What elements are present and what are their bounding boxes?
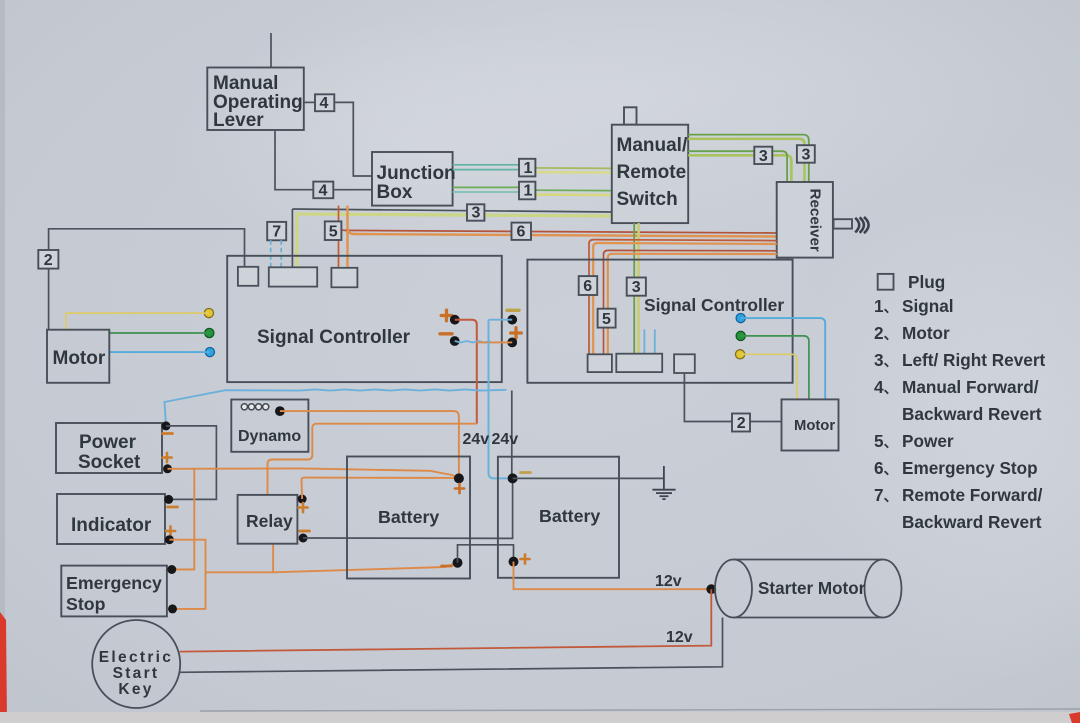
svg-text:Dynamo: Dynamo xyxy=(238,428,301,445)
orange wire dynamo to battery1 plus xyxy=(280,411,459,478)
plug 2a xyxy=(38,250,58,269)
wire plug 4b to junction box xyxy=(333,189,372,191)
starter motor junction dot xyxy=(706,584,716,594)
yellow wire to left motor xyxy=(66,313,209,330)
SC1 plus terminal left xyxy=(441,310,477,424)
electric start key circle xyxy=(92,620,180,708)
svg-text:Power: Power xyxy=(79,432,137,453)
svg-text:4: 4 xyxy=(320,95,329,112)
svg-text:2: 2 xyxy=(737,415,746,432)
svg-text:2: 2 xyxy=(44,252,53,269)
orange wire socket plus to battery1 plus xyxy=(168,468,459,478)
svg-text:Battery: Battery xyxy=(378,507,439,527)
estop bottom dot xyxy=(168,604,177,613)
SC1 minus terminal left xyxy=(440,334,491,346)
green wire to right motor xyxy=(741,336,809,400)
svg-text:5: 5 xyxy=(329,223,338,240)
battery 2 box xyxy=(498,457,619,578)
plug 3d xyxy=(627,278,646,297)
svg-text:3: 3 xyxy=(759,148,768,165)
manual/remote switch box xyxy=(612,125,688,223)
svg-text:Indicator: Indicator xyxy=(71,515,152,536)
svg-text:Backward Revert: Backward Revert xyxy=(902,512,1042,532)
junction box xyxy=(372,152,456,206)
receiver box xyxy=(777,182,833,258)
svg-text:Stop: Stop xyxy=(66,594,106,614)
wire plug 4a to junction box xyxy=(334,102,372,176)
SC1 right minus terminal xyxy=(489,310,520,324)
svg-text:Starter Motor: Starter Motor xyxy=(758,579,866,598)
svg-text:Electric: Electric xyxy=(99,649,173,666)
legend plug square xyxy=(878,274,894,290)
plug 3c on upper-right vertical xyxy=(797,145,815,163)
dark loop socket minus to indicator minus xyxy=(166,426,216,500)
svg-text:Junction: Junction xyxy=(377,163,456,184)
svg-text:Receiver: Receiver xyxy=(807,189,824,252)
SC1 green dot xyxy=(205,328,214,337)
svg-text:Socket: Socket xyxy=(78,452,141,473)
left motor box xyxy=(47,330,109,383)
orange branch to battery1 minus xyxy=(206,563,458,573)
battery1 plus dot xyxy=(454,473,464,483)
svg-text:6: 6 xyxy=(517,224,526,241)
antenna stub xyxy=(834,219,853,228)
switch bottom pair green/yellow down to plug 3d xyxy=(634,223,638,354)
svg-text:3: 3 xyxy=(632,279,641,296)
svg-text:1: 1 xyxy=(524,160,533,177)
svg-text:4: 4 xyxy=(319,182,328,199)
blue dashed pair below plug 7 xyxy=(271,240,282,268)
plug 5b xyxy=(598,309,616,328)
indicator box xyxy=(57,494,165,544)
svg-text:Motor: Motor xyxy=(53,348,106,369)
dynamo vent circles xyxy=(241,404,269,410)
orange pair to plug 6a and receiver xyxy=(339,224,777,237)
battery 1 box xyxy=(347,457,470,579)
wire plug 2a to left motor xyxy=(48,269,50,330)
starter motor cylinder xyxy=(715,560,902,618)
svg-text:3: 3 xyxy=(472,205,481,222)
battery1 minus sign xyxy=(442,565,452,568)
relay plus sign xyxy=(298,503,307,512)
relay plus dot xyxy=(298,495,307,504)
power socket box xyxy=(56,423,162,473)
plug 5a xyxy=(325,221,342,240)
svg-text:Plug: Plug xyxy=(908,272,945,292)
indicator plus sign xyxy=(166,526,175,535)
svg-text:Start: Start xyxy=(113,665,160,682)
wire from lever top xyxy=(270,33,272,68)
dynamo terminal dot xyxy=(275,406,285,416)
orange wire relay plus to battery1 plus xyxy=(302,478,459,499)
wire lever to plug 4a xyxy=(304,101,315,103)
blue wire to right motor xyxy=(741,318,826,399)
svg-text:Motor: Motor xyxy=(794,418,835,434)
orange verticals junction box to controller connector xyxy=(339,206,348,268)
SC2 connector box D xyxy=(588,354,612,372)
svg-text:6: 6 xyxy=(583,278,592,295)
indicator minus sign xyxy=(168,506,178,509)
dynamo box xyxy=(231,400,308,452)
svg-text:2、Motor: 2、Motor xyxy=(874,323,950,343)
svg-text:Emergency: Emergency xyxy=(66,573,162,593)
relay minus sign xyxy=(300,530,310,533)
bundle 3: turn-down into controller xyxy=(292,209,297,268)
SC2 yellow dot xyxy=(736,350,745,359)
svg-text:3: 3 xyxy=(802,146,811,163)
svg-text:Relay: Relay xyxy=(246,511,293,531)
antenna waves xyxy=(855,217,868,233)
dark vertical to battery2 minus xyxy=(511,391,513,479)
power socket minus dot xyxy=(162,421,171,430)
battery2 minus sign xyxy=(521,471,531,474)
svg-text:Backward Revert: Backward Revert xyxy=(902,404,1042,424)
battery2 plus dot xyxy=(509,557,519,567)
relay box xyxy=(238,495,298,544)
bundle 3: yellow-green band horizontal xyxy=(296,214,612,216)
plug 6a xyxy=(512,223,532,241)
battery1 minus dot xyxy=(453,558,463,568)
battery2 minus dot xyxy=(508,473,518,483)
estop top dot xyxy=(167,565,176,574)
wire plug 2b to right motor xyxy=(750,421,782,423)
svg-text:Manual/: Manual/ xyxy=(617,135,688,156)
plug 7 xyxy=(267,222,286,241)
plug 3b xyxy=(754,147,772,165)
plug 1a xyxy=(519,159,535,177)
power socket plus sign xyxy=(162,453,171,462)
svg-text:Signal Controller: Signal Controller xyxy=(644,295,784,315)
SC2 blue dot xyxy=(736,314,745,323)
dark wire battery1 minus to battery2 plus xyxy=(458,545,514,563)
svg-text:Switch: Switch xyxy=(617,189,678,210)
green wire to left motor xyxy=(109,332,209,334)
dark wire battery2 minus to ground xyxy=(513,477,664,479)
svg-text:1: 1 xyxy=(524,183,533,200)
blue stubs into connector E xyxy=(644,329,654,353)
blue wire to left motor xyxy=(109,351,210,353)
wire connector F down to plug 2b and right motor xyxy=(684,373,732,422)
svg-text:12v: 12v xyxy=(666,629,693,646)
plug 1b xyxy=(519,182,535,200)
power socket minus sign xyxy=(163,432,173,435)
manual operating lever box xyxy=(207,68,303,132)
power socket plus dot xyxy=(163,464,172,473)
green pair switch to receiver (upper) xyxy=(688,135,809,182)
right motor box xyxy=(782,399,839,450)
svg-text:1、Signal: 1、Signal xyxy=(874,296,954,316)
indicator minus dot xyxy=(164,495,173,504)
svg-text:5、Power: 5、Power xyxy=(874,431,954,451)
plug 4b xyxy=(313,182,333,200)
red wire starter dot down to electric key xyxy=(180,589,712,651)
orange wire indicator plus to estop bottom xyxy=(169,540,205,609)
signal controller 2 box xyxy=(527,260,792,383)
svg-text:Box: Box xyxy=(377,182,413,203)
svg-text:Battery: Battery xyxy=(539,506,600,526)
SC1 connector box A xyxy=(238,267,258,286)
svg-text:24v: 24v xyxy=(463,431,490,448)
SC2 green dot xyxy=(736,331,745,340)
dark wire electric key to starter motor bottom xyxy=(179,618,722,673)
svg-text:Manual: Manual xyxy=(213,73,278,94)
battery1 plus sign xyxy=(455,484,464,493)
svg-text:Signal Controller: Signal Controller xyxy=(257,327,411,348)
SC1 connector box B xyxy=(269,267,317,286)
orange wire estop top to socket plus line xyxy=(172,469,195,570)
svg-text:Key: Key xyxy=(118,681,153,698)
svg-text:Remote: Remote xyxy=(617,162,687,183)
svg-text:7: 7 xyxy=(272,224,281,241)
SC2 connector box F xyxy=(674,354,695,373)
relay minus dot xyxy=(299,534,308,543)
plug 6b xyxy=(579,276,598,295)
indicator plus dot xyxy=(165,535,174,544)
signal controller 1 box xyxy=(227,256,502,382)
blue wavy wire power socket to battery2 minus xyxy=(165,389,507,426)
green pair switch through plug 3b down to receiver xyxy=(688,151,791,182)
receiver-left orange bundle pair C xyxy=(604,250,777,354)
orange wire relay bottom to branch xyxy=(272,544,274,573)
dark wire relay minus to battery2 minus xyxy=(303,478,512,538)
plug 4a xyxy=(315,94,334,112)
svg-text:5: 5 xyxy=(602,311,611,328)
battery2 plus sign xyxy=(520,554,529,563)
ground symbol xyxy=(652,466,675,499)
wire pair junction to plug 1b and switch xyxy=(453,187,612,195)
plug 2b xyxy=(732,414,750,433)
SC1 blue dot xyxy=(205,348,214,357)
receiver-left orange bundle pair B xyxy=(589,240,777,355)
wire long: motor2 plug line to controller xyxy=(49,229,245,267)
yellow wire to right motor xyxy=(740,354,797,399)
svg-text:Lever: Lever xyxy=(213,110,264,131)
svg-text:24v: 24v xyxy=(492,431,519,448)
bundle 3: dark line horizontal xyxy=(292,209,611,212)
orange wire relay top to SC1 xyxy=(268,424,477,495)
wire pair junction to plug 1a and switch xyxy=(453,165,612,173)
emergency stop box xyxy=(61,566,167,617)
SC1 connector box C xyxy=(331,268,357,288)
SC1 yellow dot xyxy=(204,309,213,318)
wire lever bottom to plug 4b xyxy=(275,130,313,190)
SC2 connector box E xyxy=(616,354,662,372)
SC1 right plus terminal xyxy=(477,328,522,348)
manual/remote switch tab xyxy=(624,107,637,124)
plug 3a on bundle xyxy=(467,204,484,221)
orange wire battery2 plus to starter motor xyxy=(514,562,712,590)
svg-text:12v: 12v xyxy=(655,573,682,590)
blue 24v vertical xyxy=(489,320,513,479)
